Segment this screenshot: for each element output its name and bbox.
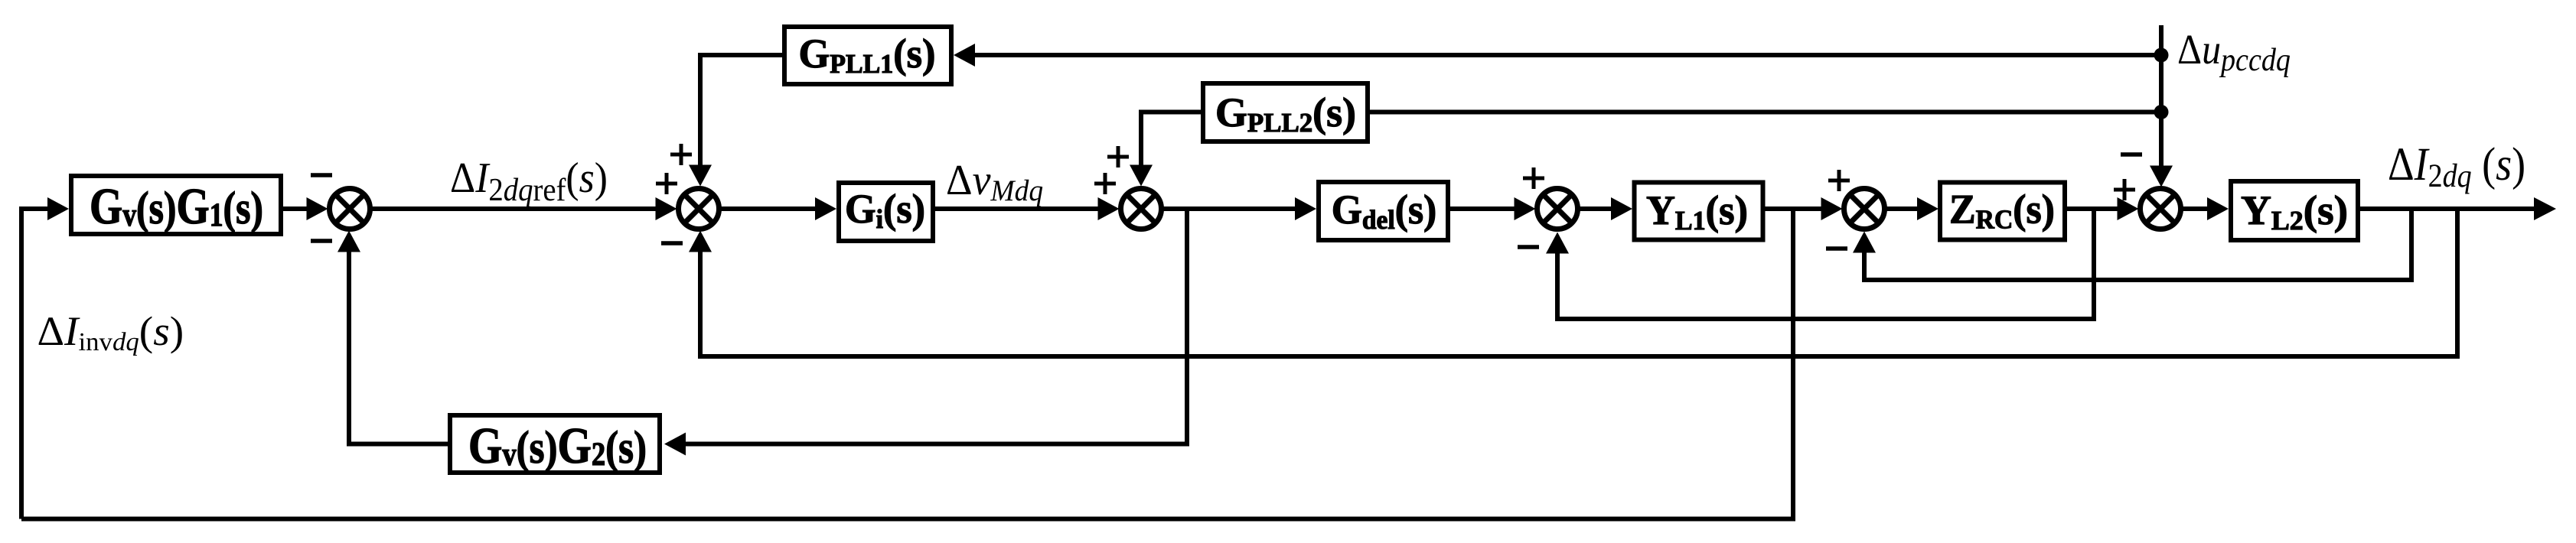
plus sign S4 upper	[1523, 177, 1544, 180]
minus sign S6 upper	[2121, 152, 2142, 157]
node dot pcc to GPLL2	[2154, 105, 2169, 119]
plus sign S3 left	[1094, 182, 1116, 186]
summing junction S4	[1537, 189, 1578, 229]
block YL2(s)	[2231, 181, 2358, 240]
wire Gv(s)G1(s) to summing junction S1	[283, 206, 308, 211]
wire S2 bottom feedback from long line	[700, 209, 2457, 356]
wire input left vertical and into Gv(s)G1(s)	[21, 209, 51, 519]
block Gv(s)G2(s)	[450, 415, 660, 473]
wire S1 to S2	[372, 206, 657, 211]
wire Gv(s)G2(s) output to S1 bottom	[349, 251, 448, 444]
arrowhead into S5 bottom	[1853, 232, 1876, 253]
arrowhead into S2 bottom	[689, 231, 712, 252]
summing junction S3	[1121, 189, 1162, 229]
arrowhead into S5	[1821, 197, 1843, 220]
arrowhead output	[2534, 197, 2556, 220]
wire S5 bottom feedback from output branch	[1864, 209, 2411, 280]
arrowhead into S4 bottom	[1546, 232, 1569, 254]
minus sign S4 lower	[1518, 245, 1539, 249]
block Gdel(s)	[1319, 182, 1448, 240]
block YL1(s)	[1635, 183, 1763, 240]
wire Gi(s) to S3	[935, 206, 1099, 211]
wire Gdel(s) to S4	[1450, 206, 1515, 211]
arrowhead into Gdel(s)	[1295, 197, 1316, 220]
wire pcc to GPLL2(s)	[1370, 110, 2161, 115]
wire pcc to GPLL1(s)	[975, 53, 2161, 57]
block GPLL2(s)	[1203, 83, 1368, 141]
summing junction S1	[330, 189, 370, 229]
svg-text:Gv(s)G1(s): Gv(s)G1(s)	[90, 178, 263, 235]
wire Delta-u pccdq vertical into S6	[2159, 25, 2164, 167]
arrowhead into S3 top	[1130, 165, 1153, 187]
arrowhead into GPLL1(s)	[954, 44, 975, 67]
wire S4 to YL1(s)	[1580, 206, 1613, 211]
wire bottom line from YL1 branch to far left	[21, 209, 1793, 519]
wire S4 bottom feedback from after ZRC branch	[1557, 209, 2094, 319]
plus sign S2 left	[656, 182, 677, 186]
block Gi(s)	[839, 183, 933, 241]
arrowhead into S3	[1098, 197, 1120, 220]
plus sign S6 left	[2114, 188, 2135, 192]
block ZRC(s)	[1940, 183, 2065, 240]
wire S5 to ZRC(s)	[1886, 206, 1919, 211]
arrowhead into YL1(s)	[1611, 197, 1632, 220]
summing junction S2	[679, 189, 719, 229]
wire YL2(s) to output	[2360, 206, 2536, 211]
node dot pcc to GPLL1	[2154, 48, 2169, 63]
arrowhead into Gi(s)	[815, 197, 836, 220]
wire GPLL1(s) output to S2 top	[700, 55, 782, 167]
wire S6 to YL2(s)	[2183, 206, 2209, 211]
arrowhead into Gv(s)G1(s)	[47, 197, 69, 220]
plus sign S5 upper	[1828, 179, 1850, 183]
arrowhead into S1 bottom	[337, 231, 360, 252]
summing junction S6	[2141, 189, 2181, 229]
wire ZRC(s) to S6	[2067, 206, 2118, 211]
plus sign S2 upper	[670, 153, 692, 157]
arrowhead into Gv(s)G2(s)	[664, 433, 686, 456]
arrowhead into S6	[2118, 197, 2139, 220]
wire S3 to Gdel(s)	[1163, 206, 1297, 211]
block Gv(s)G1(s)	[71, 176, 281, 234]
arrowhead into YL2(s)	[2207, 197, 2229, 220]
arrowhead into S4	[1515, 197, 1536, 220]
svg-text:Gi(s): Gi(s)	[845, 187, 925, 234]
minus sign S5 lower	[1826, 246, 1847, 251]
svg-text:Gv(s)G2(s): Gv(s)G2(s)	[468, 418, 647, 474]
wire branch after S3 down to Gv(s)G2(s) input	[686, 209, 1187, 444]
minus sign S2 lower	[661, 241, 683, 245]
wire GPLL2(s) output to S3 top	[1141, 112, 1201, 167]
plus sign S3 upper	[1107, 155, 1129, 159]
wire YL1(s) to S5	[1764, 206, 1822, 211]
wire S2 to Gi(s)	[721, 206, 817, 211]
arrowhead into S2	[656, 197, 677, 220]
arrowhead into ZRC(s)	[1917, 197, 1939, 220]
minus sign S1 upper	[311, 173, 332, 177]
arrowhead into S2 top	[689, 165, 712, 187]
block GPLL1(s)	[784, 27, 951, 84]
arrowhead into S6 top	[2150, 166, 2173, 187]
minus sign S1 lower	[311, 239, 332, 243]
arrowhead into S1	[307, 197, 328, 220]
summing junction S5	[1844, 189, 1885, 229]
